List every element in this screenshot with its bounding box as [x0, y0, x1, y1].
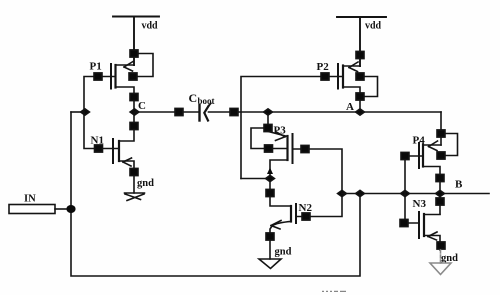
watermark remnant [322, 285, 346, 294]
gnd label middle [275, 247, 292, 258]
node junction right gates [401, 190, 410, 196]
wire left column down to N1 gate [84, 112, 94, 149]
transistor N2 [266, 204, 310, 259]
svg-text:C: C [138, 100, 146, 112]
wire P3 drain column [266, 160, 291, 206]
wire P3 gate to gates bus [309, 149, 342, 194]
capacitor Cboot [200, 103, 211, 120]
ground symbol middle [259, 259, 281, 269]
wire junction to IN column [71, 111, 84, 113]
transistor N3 [400, 198, 445, 250]
svg-text:vdd: vdd [142, 21, 159, 32]
label B [455, 179, 463, 191]
svg-text:P3: P3 [274, 125, 287, 137]
svg-text:vdd: vdd [365, 21, 382, 32]
label N1 [91, 135, 104, 147]
node junction mid column [266, 175, 275, 181]
label Cboot [189, 91, 215, 106]
gnd label left [137, 178, 154, 189]
svg-text:P2: P2 [317, 61, 330, 73]
transistor P2 [321, 51, 378, 112]
port IN [9, 205, 66, 214]
node junction B rail [436, 190, 445, 196]
wire P2 gate riser [241, 77, 321, 179]
label P2 [317, 61, 330, 73]
node junction P3 source [264, 109, 273, 115]
label C [138, 100, 146, 112]
vdd label right [365, 21, 382, 32]
svg-text:N1: N1 [91, 135, 104, 147]
ground symbol right faint [430, 250, 451, 275]
node A [356, 109, 365, 115]
transistor P3 [251, 112, 309, 163]
label A [346, 101, 354, 113]
node C [130, 109, 139, 115]
label P3 [274, 125, 287, 137]
svg-text:gnd: gnd [275, 247, 292, 258]
transistor P4 [401, 130, 458, 214]
vdd rail right [337, 17, 386, 66]
label N3 [413, 198, 427, 210]
gnd label right faint [441, 253, 458, 264]
node junction IN [66, 205, 75, 213]
svg-text:B: B [455, 179, 463, 191]
wire P1 gate to left column [84, 77, 94, 113]
transistor N1 [95, 112, 139, 193]
svg-text:boot: boot [198, 96, 215, 106]
svg-text:P1: P1 [90, 61, 102, 73]
node junction feedback [356, 190, 365, 196]
wire N2 gate to gates bus [310, 194, 342, 217]
label N2 [299, 202, 313, 214]
svg-text:. . . .. ...: . . . .. ... [322, 285, 346, 294]
wire gates bus [342, 193, 443, 195]
svg-text:N2: N2 [299, 202, 313, 214]
ground symbol left [125, 193, 145, 201]
node junction gates bus left [338, 190, 347, 196]
label IN [24, 194, 36, 205]
svg-text:N3: N3 [413, 198, 427, 210]
wire P2 gate riser to mid junction [241, 178, 266, 180]
label P1 [90, 61, 102, 73]
wire node B [443, 193, 489, 195]
svg-text:P4: P4 [413, 135, 426, 147]
svg-text:IN: IN [24, 194, 36, 205]
transistor P1 [94, 50, 153, 112]
wire feedback bottom loop [71, 112, 360, 276]
node junction left column [81, 109, 90, 115]
svg-text:A: A [346, 101, 354, 113]
vdd label left [142, 21, 159, 32]
wire node C to capacitor [135, 108, 200, 115]
wire node A to P4 [440, 112, 442, 145]
svg-text:C: C [189, 91, 198, 105]
wire capacitor to node A rail [209, 108, 442, 115]
label P4 [413, 135, 426, 147]
wire P4 gate to N3 gate [404, 160, 406, 219]
vdd rail left [113, 17, 159, 66]
svg-text:gnd: gnd [137, 178, 154, 189]
